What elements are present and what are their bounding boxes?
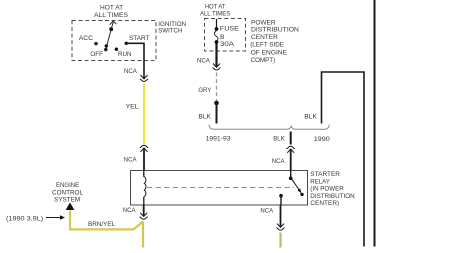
svg-text:POWER: POWER <box>251 19 276 26</box>
svg-text:1991-93: 1991-93 <box>206 136 231 143</box>
svg-text:BLK: BLK <box>304 113 317 120</box>
svg-text:1990: 1990 <box>314 136 330 143</box>
svg-text:SYSTEM: SYSTEM <box>54 197 81 204</box>
svg-text:NCA: NCA <box>260 208 273 215</box>
svg-text:ALL TIMES: ALL TIMES <box>94 12 128 19</box>
svg-text:NCA: NCA <box>272 158 285 165</box>
svg-text:BLK: BLK <box>273 136 285 143</box>
svg-text:RELAY: RELAY <box>310 178 330 185</box>
svg-text:STARTER: STARTER <box>310 171 340 178</box>
svg-text:RUN: RUN <box>118 51 132 58</box>
svg-text:SWITCH: SWITCH <box>158 28 182 35</box>
svg-text:(LEFT SIDE: (LEFT SIDE <box>250 41 284 48</box>
svg-text:(IN POWER: (IN POWER <box>310 186 343 193</box>
svg-text:B: B <box>220 34 225 41</box>
svg-text:CENTER: CENTER <box>251 34 278 41</box>
svg-text:30A: 30A <box>220 41 235 48</box>
svg-text:BLK: BLK <box>198 114 211 121</box>
svg-text:DISTRIBUTION: DISTRIBUTION <box>310 193 354 200</box>
svg-text:OF ENGINE: OF ENGINE <box>251 49 288 56</box>
svg-text:FUSE: FUSE <box>220 25 240 32</box>
svg-text:CONTROL: CONTROL <box>52 189 83 196</box>
svg-text:DISTRIBUTION: DISTRIBUTION <box>251 27 299 34</box>
svg-text:NCA: NCA <box>197 57 210 64</box>
svg-text:NCA: NCA <box>124 68 137 75</box>
svg-text:OFF: OFF <box>90 51 103 58</box>
svg-text:ENGINE: ENGINE <box>56 182 80 189</box>
svg-text:START: START <box>129 35 150 42</box>
svg-text:YEL: YEL <box>126 103 139 110</box>
svg-text:GRY: GRY <box>198 87 211 94</box>
svg-text:ALL TIMES: ALL TIMES <box>200 11 231 18</box>
svg-text:COMPT): COMPT) <box>251 57 276 64</box>
svg-text:ACC: ACC <box>79 35 93 42</box>
svg-text:BRN/YEL: BRN/YEL <box>88 221 115 228</box>
svg-text:HOT AT: HOT AT <box>205 3 225 10</box>
svg-text:CENTER): CENTER) <box>310 200 339 207</box>
svg-text:NCA: NCA <box>123 207 136 214</box>
svg-text:HOT AT: HOT AT <box>100 4 123 11</box>
svg-text:(1990 3.9L): (1990 3.9L) <box>6 215 43 222</box>
svg-text:NCA: NCA <box>124 156 137 163</box>
